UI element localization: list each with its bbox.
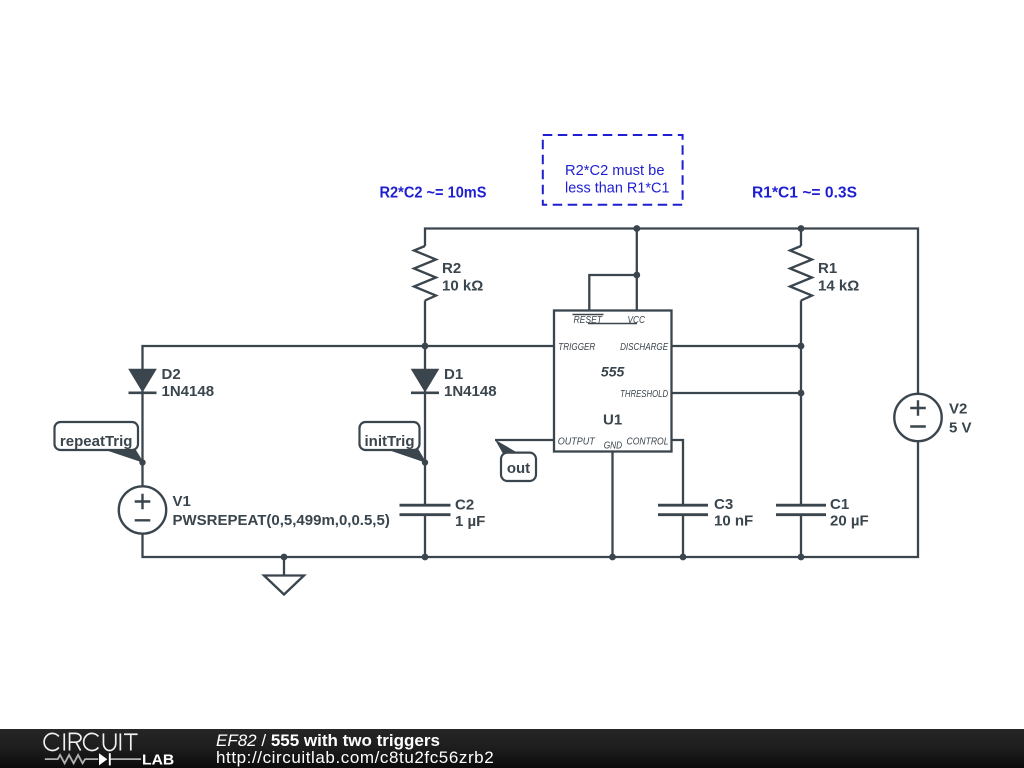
svg-text:V1: V1	[173, 493, 191, 510]
CircuitLab logo	[0, 728, 200, 768]
wire GND stub	[611, 452, 613, 558]
wire RESET stub with jog	[589, 275, 637, 311]
diode D2	[130, 370, 156, 392]
svg-text:RESET: RESET	[574, 315, 603, 326]
svg-text:R2*C2 ~= 10mS: R2*C2 ~= 10mS	[380, 185, 487, 202]
voltage source V2	[894, 394, 941, 441]
flag repeatTrig	[101, 449, 144, 464]
svg-text:20 µF: 20 µF	[830, 513, 869, 530]
wire V1 left branch vertical	[143, 346, 555, 487]
svg-text:LAB: LAB	[142, 752, 174, 768]
logo resistor-diode glyph	[45, 755, 141, 763]
svg-text:U1: U1	[603, 412, 622, 429]
flag out	[495, 440, 519, 454]
ground	[283, 557, 285, 576]
voltage source V1	[119, 486, 166, 533]
svg-text:5 V: 5 V	[949, 420, 972, 437]
svg-text:THRESHOLD: THRESHOLD	[620, 389, 668, 400]
resistor R1	[790, 246, 812, 301]
note box dashed	[543, 135, 683, 205]
svg-text:OUTPUT: OUTPUT	[558, 437, 596, 448]
svg-text:R2*C2 must be: R2*C2 must be	[565, 162, 665, 179]
svg-text:C1: C1	[830, 496, 849, 513]
svg-text:R1: R1	[818, 260, 837, 277]
capacitor C3	[658, 505, 708, 515]
svg-text:1 µF: 1 µF	[455, 513, 485, 530]
capacitor C1	[776, 505, 826, 515]
wire top rail	[425, 229, 918, 395]
svg-text:DISCHARGE: DISCHARGE	[620, 342, 668, 353]
svg-text:10 kΩ: 10 kΩ	[442, 278, 483, 295]
RESET overline	[573, 314, 604, 316]
node junction dots	[281, 225, 805, 560]
op-amp U1 555 timer box	[554, 311, 672, 452]
diode D1	[412, 370, 438, 392]
footer url	[216, 749, 494, 766]
svg-text:555: 555	[601, 363, 625, 379]
footer bar	[0, 729, 1024, 768]
svg-text:TRIGGER: TRIGGER	[558, 342, 595, 353]
svg-text:10 nF: 10 nF	[714, 513, 753, 530]
svg-text:C3: C3	[714, 496, 733, 513]
wire VCC stub	[636, 229, 638, 311]
wire OUTPUT stub	[495, 439, 554, 441]
svg-text:V2: V2	[949, 401, 967, 418]
svg-text:initTrig: initTrig	[365, 433, 415, 450]
svg-text:1N4148: 1N4148	[162, 383, 215, 400]
svg-text:PWSREPEAT(0,5,499m,0,0.5,5): PWSREPEAT(0,5,499m,0,0.5,5)	[173, 512, 390, 529]
svg-text:C2: C2	[455, 497, 474, 514]
svg-text:out: out	[507, 460, 530, 477]
svg-text:repeatTrig: repeatTrig	[60, 433, 133, 450]
svg-text:VCC: VCC	[628, 315, 646, 326]
svg-text:D1: D1	[444, 366, 463, 383]
svg-text:GND: GND	[604, 441, 623, 452]
wire DISCHARGE row	[672, 345, 802, 347]
svg-text:14 kΩ: 14 kΩ	[818, 278, 859, 295]
wire CONTROL to C3	[672, 440, 684, 557]
flag initTrig	[384, 449, 427, 464]
footer title	[216, 732, 440, 749]
svg-text:R2: R2	[442, 260, 461, 277]
svg-text:1N4148: 1N4148	[444, 383, 497, 400]
wire R1/C1 branch vertical	[800, 229, 802, 558]
svg-text:R1*C1 ~= 0.3S: R1*C1 ~= 0.3S	[752, 185, 857, 202]
svg-text:D2: D2	[162, 366, 181, 383]
wire THRESHOLD row	[672, 392, 802, 394]
capacitor C2	[400, 505, 451, 515]
wire bottom rail	[143, 441, 919, 557]
wire R2/D1/C2 branch vertical	[424, 301, 426, 558]
line under RESET to VCC	[588, 323, 637, 325]
resistor R2	[414, 246, 436, 301]
svg-text:CONTROL: CONTROL	[627, 437, 669, 448]
svg-text:less than R1*C1: less than R1*C1	[565, 180, 670, 197]
